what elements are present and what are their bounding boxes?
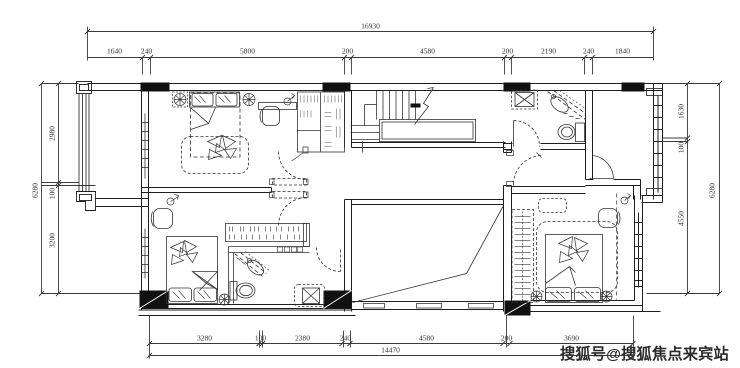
shower stall bathroom1 [512,90,538,109]
svg-text:4550: 4550 [677,211,686,226]
svg-text:14470: 14470 [381,346,400,355]
svg-text:6280: 6280 [31,183,40,198]
bedroom1 bottom wall [142,188,272,193]
svg-text:240: 240 [141,47,153,56]
ceiling light bedroom1 [284,94,295,106]
svg-text:240: 240 [583,47,595,56]
stair direction black mark [411,104,421,108]
entry lower wall [586,180,641,200]
door bathroom2 (lower middle) [317,248,341,272]
door jambs bedroom1 [270,147,309,198]
svg-text:16930: 16930 [361,22,380,31]
entry door [590,156,614,179]
quilt pinwheels bed3 [559,237,589,263]
top overall dim line 16930 [85,27,656,61]
plant right bed3 [601,291,612,302]
wall block bottom 2 [324,291,352,309]
rug bedroom1 [182,137,249,174]
left balcony bottom corner [77,192,96,211]
right exterior wall lower [635,196,643,312]
chair bedroom3 [599,209,621,228]
bedroom3 top wall [512,187,586,194]
corner vanity bathroom2 [235,252,271,278]
plant right of bed1 [243,94,255,106]
window ticks in wall A [142,114,149,279]
right bay window bottom cap [647,189,663,196]
bathroom bottom wall [504,144,586,150]
void top wall [352,200,504,205]
floor lamp bedroom2 [167,195,179,206]
door bedroom1 swing arc up [279,152,307,180]
right wall step [642,196,663,203]
void diagonal lines [353,206,504,303]
small table bedroom3 [539,199,567,213]
blanket fold bed3 [546,267,576,286]
stair treads [377,91,416,120]
svg-text:2190: 2190 [541,47,556,56]
bed1 body [191,93,241,157]
svg-text:1640: 1640 [107,47,122,56]
stair lower flight [351,105,380,140]
desk bedroom1 [259,103,297,110]
svg-text:2380: 2380 [295,334,310,343]
ceiling light bedroom3 [621,194,631,205]
blanket fold bed2 [193,272,218,291]
wall under stairs [352,143,506,148]
svg-text:4580: 4580 [419,334,434,343]
armchair bedroom2 [151,209,172,229]
stair side wall stub [362,142,364,153]
hall long cabinet [226,224,310,247]
plant left bed3 [531,291,542,302]
stair railing rect [380,120,476,142]
wall block top 3 [504,83,531,92]
bed1 blanket fold [191,108,216,130]
bathroom2 top wall [229,247,310,253]
svg-text:1840: 1840 [615,47,630,56]
left balcony corner post [77,82,92,94]
toilet bathroom1 [558,123,585,142]
quilt pinwheels bedroom1 [208,136,237,160]
svg-text:1630: 1630 [677,104,686,119]
svg-text:200: 200 [342,47,354,56]
wardrobe bedroom3 [512,210,534,303]
svg-text:100: 100 [255,334,267,343]
bed3 body [546,235,603,303]
svg-text:200: 200 [502,47,514,56]
right dim lines [647,81,723,296]
watermark 搜狐号@搜狐焦点来宾站 [560,342,738,364]
svg-text:5800: 5800 [240,47,255,56]
stair break line [415,88,434,125]
left bay window glazing [79,94,89,192]
void bottom window band [352,302,504,310]
wall block bottom 3 [505,301,531,316]
bed2 body [167,237,218,304]
svg-text:3200: 3200 [48,233,57,248]
wall block bottom-left corner [140,291,169,309]
rug bedroom3 [537,222,618,293]
svg-text:2980: 2980 [48,126,57,141]
closet dashed line bedroom3 [616,194,618,300]
svg-text:100: 100 [48,188,57,200]
shower bathroom2 [295,285,325,307]
right exterior wall upper [654,84,663,200]
hall/void right wall [504,142,512,312]
entry wall stub [586,154,593,180]
top dim labels [107,22,630,56]
hall wall between wardrobe and stairs [345,91,352,148]
wall block top 4 [622,83,645,92]
plant left of bed1 [173,92,188,107]
chair bedroom1 [260,107,280,126]
wall block top 1 [141,83,170,92]
svg-text:200: 200 [501,334,513,343]
plant at bed2 foot [219,294,230,305]
left dim lines [39,81,142,296]
toilet bathroom2 [230,282,255,301]
bed1 headboard and pillows [190,92,240,107]
wardrobe bedroom1 [298,92,345,152]
door bathroom top-right [514,121,540,147]
svg-text:100: 100 [677,142,686,154]
wall block top 2 [323,83,351,92]
svg-text:3280: 3280 [197,334,212,343]
door bedroom1 double leaf dashed [273,179,307,199]
wall A (left interior vertical) [142,91,149,310]
top exterior wall [88,84,663,91]
bathroom right wall [586,91,593,154]
bathroom2 left wall [229,247,234,304]
svg-text:240: 240 [340,334,352,343]
right bay window top cap [647,89,663,96]
bottom wall of bedroom3 [531,301,661,312]
door hall swing arc down [279,198,307,226]
svg-text:6280: 6280 [708,183,717,198]
door bedroom3 from hall [507,151,542,187]
bottom exterior wall left part [139,305,356,316]
pillows bed2 [169,288,192,302]
top segment dim line [88,55,654,75]
bottom dim lines [147,316,636,359]
void left wall [345,200,352,312]
quilt pinwheels bed2 [171,241,198,265]
svg-text:4580: 4580 [420,47,435,56]
balcony bottom wall [96,199,149,207]
corner vanity bathroom1 [548,91,586,120]
pillows bed3 [546,288,572,302]
